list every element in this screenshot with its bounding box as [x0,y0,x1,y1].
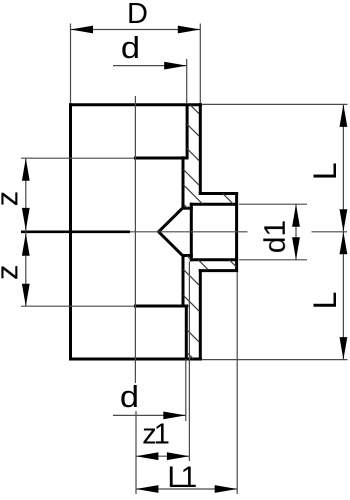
ext d top [186,59,188,103]
branch socket bottom wall [190,203,193,262]
dim L arrow midup [340,232,348,255]
ext d1 top [239,203,307,205]
outer wall upper [199,103,202,195]
bore wall lower [182,256,185,308]
main centerline vertical [134,96,136,383]
jog lower [182,254,193,257]
branch centerline right stub [312,231,348,233]
dim z arrow up2 [22,233,30,256]
branch face [235,192,238,272]
hatch D3 [187,352,193,358]
dim L1 arrow right [215,485,238,493]
svg-text:z: z [0,265,24,281]
dim z1 line [136,455,190,457]
dim z arrow up1 [22,158,30,181]
dim L arrow top [340,104,348,127]
svg-text:d1: d1 [259,220,292,253]
svg-text:z: z [0,191,24,207]
body left edge [69,103,72,360]
branch bottom outer edge [199,269,238,272]
hatch A4 [183,170,199,186]
outer wall lower [199,269,202,360]
svg-text:d: d [120,380,139,414]
dim L arrow bottom [340,337,348,360]
dim z1 arrow left [136,452,159,460]
branch socket bottom edge [190,258,238,261]
ext d bottom [185,359,187,421]
centerline bold segment [21,231,130,234]
dim d top arrow [164,62,187,70]
body top edge [69,103,202,106]
ext L1 right [236,272,238,494]
hatch C2 [183,295,199,311]
cone V [159,207,184,256]
branch socket top edge [190,203,238,206]
hatch A1 [190,105,199,114]
dim z line [25,158,27,306]
svg-text:z1: z1 [142,418,169,450]
svg-text:L: L [307,292,343,310]
hatch B0 [187,256,191,260]
dim z1 arrow right [167,452,190,460]
dim d1 arrow down [292,237,300,259]
dim D line [71,29,201,31]
ext z1 right [188,262,190,462]
hatch A7 [184,205,187,208]
hatch A6 [223,194,233,204]
hatch A2 [187,124,199,136]
svg-text:L: L [307,162,343,180]
socket step lower [134,305,188,308]
ext d1 bottom [239,259,307,261]
svg-text:d: d [121,31,140,65]
ext z top [21,157,134,159]
dim L line [342,104,344,359]
socket step upper [134,157,188,160]
hatch D2 [187,330,199,342]
hatch C1 [183,269,199,285]
bore wall upper [182,156,185,208]
hatch A5 [183,185,202,204]
hatch A3 [187,149,199,161]
dim d bottom arrow [163,412,186,420]
dim d bottom line [113,414,186,416]
dim z arrow down2 [22,284,30,307]
dim D arrow right [178,26,201,34]
hatch B2 [229,260,236,267]
ext z bottom [21,305,134,307]
svg-text:D: D [127,0,148,30]
branch top outer edge [199,192,238,195]
dim d top line [113,65,187,67]
hatch B1 [198,260,208,270]
ext L bottom [202,359,348,361]
body bottom edge [69,358,202,361]
dim D arrow left [71,26,94,34]
dim d1 arrow up [292,204,300,227]
extension centerline below [135,411,137,494]
dim z arrow down1 [22,208,30,231]
svg-text:L1: L1 [167,461,196,494]
dim L arrow middown [340,209,348,232]
socket wall lower [185,305,188,361]
jog upper [182,207,193,210]
branch centerline thin [130,231,248,233]
ext D right [199,24,201,104]
dim L1 arrow left [136,485,159,493]
dim d1 line [295,204,297,259]
socket wall upper [186,104,189,159]
ext D left [70,24,72,104]
dim L1 line [136,488,237,490]
ext L top [202,103,348,105]
